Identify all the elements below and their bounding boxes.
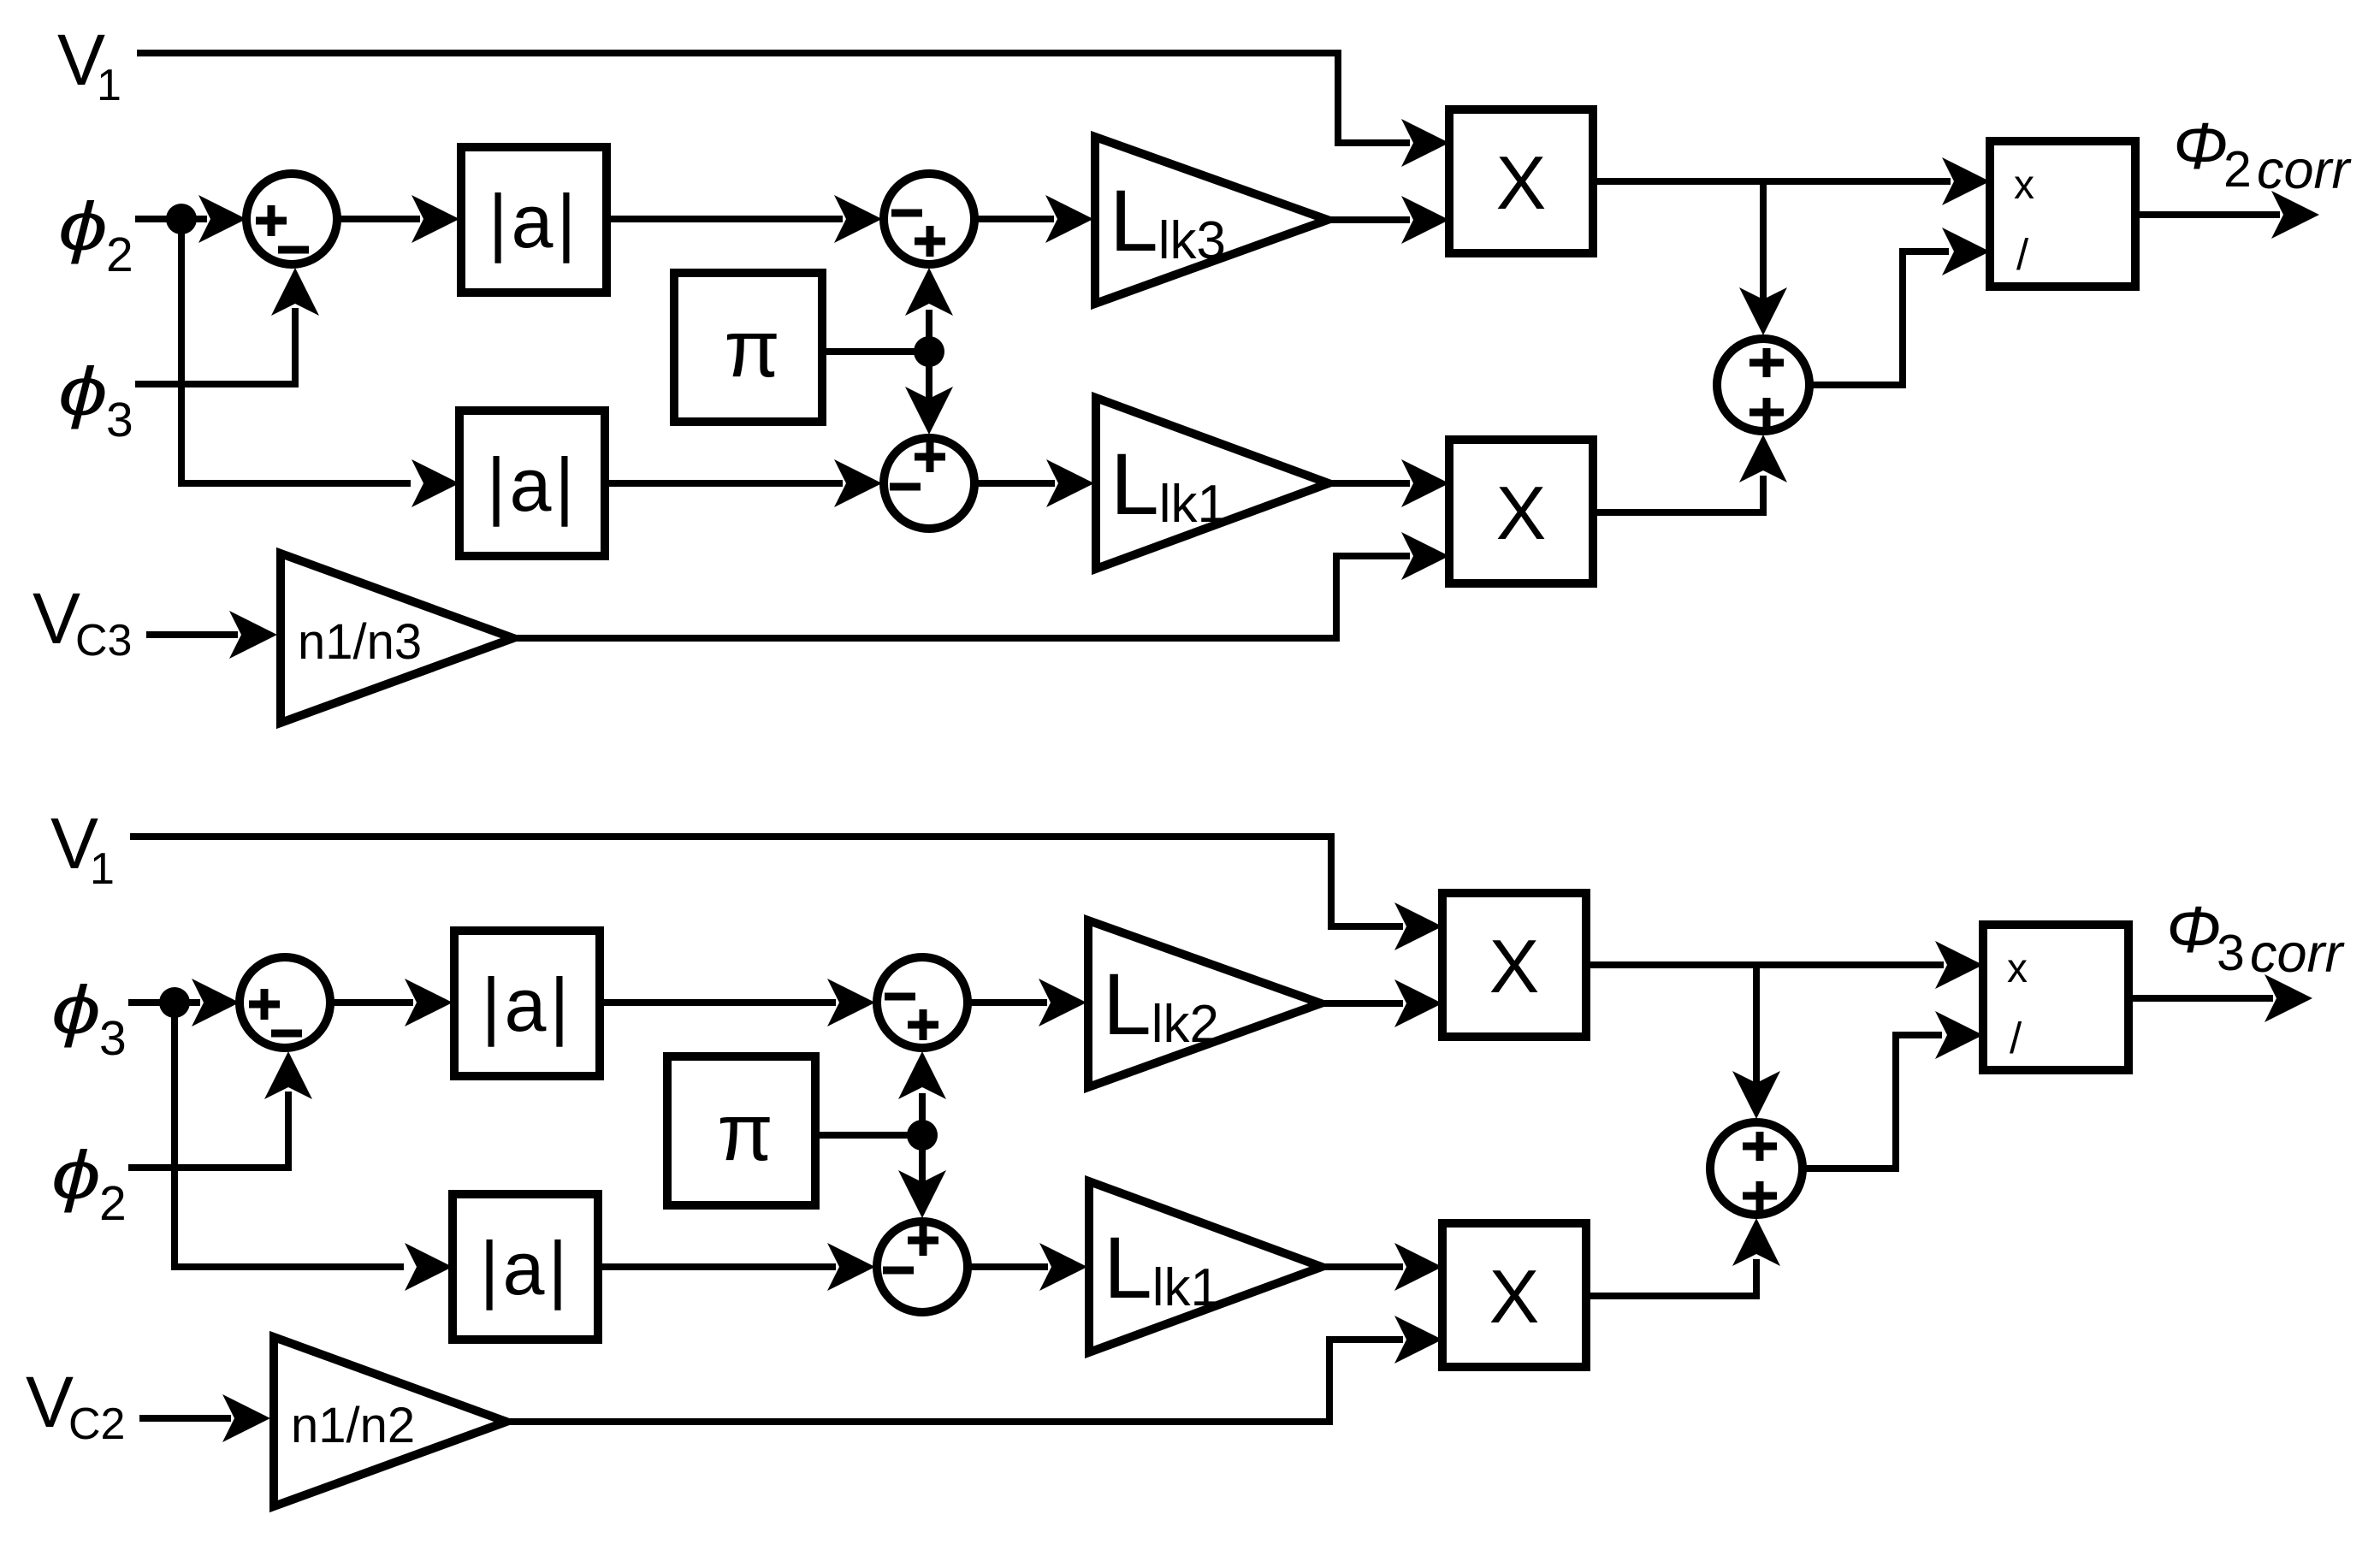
block A2 |a| (absolute value)	[453, 1194, 598, 1340]
wire X1 branch to adder	[1739, 181, 1787, 335]
wire VC3 to gain n1/n3	[146, 611, 277, 659]
wire phi3 to summing junction S1	[128, 979, 240, 1026]
wire X1 to divider numerator input	[1586, 941, 1983, 989]
label VC2 input	[26, 1362, 125, 1449]
svg-text:3: 3	[106, 393, 133, 447]
svg-text:ϕ: ϕ	[58, 353, 108, 430]
wire Llk1 to multiplier X2 upper input	[1329, 459, 1449, 507]
wire X2 to adder lower input	[1586, 1218, 1780, 1296]
svg-text:2: 2	[99, 1176, 127, 1231]
wire PI output to node	[822, 348, 929, 355]
wire adder to divider denominator input	[1804, 1011, 1983, 1168]
svg-text:C3: C3	[75, 616, 132, 666]
adder A+ (+/+)	[1717, 339, 1809, 431]
label output PHI2corr	[2173, 109, 2353, 200]
svg-text:|a|: |a|	[487, 442, 578, 527]
svg-text:ϕ: ϕ	[58, 188, 108, 265]
wire node to S2 plus input	[905, 268, 953, 352]
svg-text:n1/n3: n1/n3	[298, 614, 422, 670]
wire divider to output PHI2corr	[2135, 191, 2319, 239]
multiplier X1	[1442, 893, 1586, 1037]
subtractor S2 (-/+)	[884, 174, 974, 264]
node phi3 branch junction	[159, 987, 190, 1018]
subtractor S2 (-/+)	[877, 957, 968, 1048]
wire node to S3 plus input	[905, 352, 953, 435]
label phi2 input	[51, 1137, 127, 1231]
block A2 |a| (absolute value)	[459, 411, 605, 556]
wire A1 to subtractor S2	[600, 979, 875, 1026]
label phi3 input	[51, 972, 127, 1066]
wire node to S3 plus input	[898, 1135, 946, 1218]
node PI branch junction	[914, 336, 944, 367]
svg-text:π: π	[717, 1087, 773, 1178]
svg-text:V: V	[26, 1362, 74, 1442]
svg-text:Φ: Φ	[2166, 893, 2221, 967]
svg-text:corr: corr	[2250, 924, 2346, 984]
svg-text:3: 3	[99, 1011, 127, 1066]
svg-text:/: /	[2010, 1014, 2022, 1062]
wire A2 to subtractor S3	[598, 1243, 875, 1291]
wire X1 branch to adder	[1732, 965, 1780, 1119]
divider block x/	[1983, 925, 2128, 1070]
wire node to S2 plus input	[898, 1051, 946, 1135]
wire S2 to gain Llk3	[978, 195, 1093, 243]
wire n1/n3 to multiplier X2 lower input	[513, 532, 1449, 638]
svg-text:2: 2	[2223, 141, 2252, 198]
adder A+ (+/+)	[1710, 1122, 1803, 1215]
wire Llk2 to multiplier X1 lower input	[1321, 979, 1442, 1027]
multiplier X2	[1449, 440, 1593, 583]
svg-text:ϕ: ϕ	[51, 1137, 101, 1214]
multiplier X2	[1442, 1223, 1586, 1367]
wire S1 to absolute-value block A1	[339, 195, 459, 243]
svg-text:/: /	[2016, 230, 2029, 279]
svg-text:corr: corr	[2257, 140, 2353, 200]
wire VC2 to gain n1/n2	[139, 1394, 270, 1442]
wire A2 to subtractor S3	[605, 459, 882, 507]
node PI branch junction	[907, 1120, 938, 1151]
svg-text:n1/n2: n1/n2	[291, 1398, 415, 1453]
wire V1 to multiplier X1 upper input	[130, 837, 1442, 950]
svg-text:x: x	[2007, 946, 2028, 991]
wire Llk3 to multiplier X1 lower input	[1328, 196, 1449, 244]
wire X1 to divider numerator input	[1593, 157, 1990, 205]
subtractor S3 (+/-)	[877, 1222, 968, 1312]
wire S2 to gain Llk2	[971, 979, 1086, 1026]
block PI (constant pi)	[674, 273, 822, 422]
wire S3 to gain Llk1	[978, 459, 1094, 507]
wire n1/n2 to multiplier X2 lower input	[506, 1316, 1442, 1422]
svg-text:X: X	[1496, 140, 1547, 225]
node phi2 branch junction	[166, 204, 197, 234]
wire S1 to absolute-value block A1	[332, 979, 453, 1026]
block PI (constant pi)	[667, 1056, 815, 1205]
wire phi2 to summing junction S1	[135, 195, 246, 243]
svg-text:C2: C2	[68, 1399, 125, 1449]
svg-text:|a|: |a|	[482, 962, 573, 1047]
wire X2 to adder lower input	[1593, 435, 1787, 512]
wire A1 to subtractor S2	[607, 195, 882, 243]
wire divider to output PHI3corr	[2128, 974, 2312, 1022]
svg-text:V: V	[33, 578, 80, 659]
label V1 (V1 input)	[57, 20, 121, 110]
divider block x/	[1990, 141, 2135, 287]
label V1 (V1 input)	[50, 803, 115, 894]
summing junction S1 (+/-)	[246, 174, 337, 264]
label VC3 input	[33, 578, 132, 666]
svg-text:1: 1	[97, 61, 121, 110]
svg-text:ϕ: ϕ	[51, 972, 101, 1049]
svg-text:X: X	[1496, 470, 1547, 555]
wire phi3 branch to absolute-value block A2	[175, 1003, 453, 1291]
multiplier X1	[1449, 109, 1593, 253]
svg-text:|a|: |a|	[488, 179, 580, 263]
wire V1 to multiplier X1 upper input	[137, 53, 1449, 167]
svg-text:π: π	[724, 304, 780, 394]
summing junction S1 (+/-)	[240, 957, 330, 1048]
gain block n1/n2	[274, 1337, 506, 1506]
svg-text:X: X	[1489, 1254, 1540, 1339]
svg-text:3: 3	[2217, 925, 2245, 981]
svg-text:|a|: |a|	[480, 1226, 571, 1310]
svg-text:Φ: Φ	[2173, 109, 2228, 183]
label output PHI3corr	[2166, 893, 2346, 984]
svg-text:X: X	[1489, 924, 1540, 1009]
gain block Llk2	[1088, 920, 1321, 1087]
label phi3 input	[58, 353, 133, 447]
gain block Llk1	[1089, 1181, 1322, 1352]
wire phi2 to S1 inverting input	[128, 1051, 312, 1168]
svg-text:1: 1	[90, 844, 115, 894]
wire adder to divider denominator input	[1811, 228, 1990, 385]
wire S3 to gain Llk1	[971, 1243, 1087, 1291]
wire phi3 to S1 inverting input	[135, 268, 319, 384]
gain block Llk1	[1096, 398, 1329, 569]
svg-text:2: 2	[106, 228, 133, 282]
block A1 |a| (absolute value)	[461, 147, 607, 293]
block A1 |a| (absolute value)	[454, 931, 600, 1076]
gain block Llk3	[1095, 137, 1328, 304]
subtractor S3 (+/-)	[884, 438, 974, 529]
label phi2 input	[58, 188, 133, 282]
wire Llk1 to multiplier X2 upper input	[1322, 1243, 1442, 1291]
gain block n1/n3	[281, 553, 513, 723]
wire PI output to node	[815, 1132, 922, 1139]
svg-text:x: x	[2014, 163, 2034, 208]
wire phi2 branch to absolute-value block A2	[181, 219, 459, 507]
